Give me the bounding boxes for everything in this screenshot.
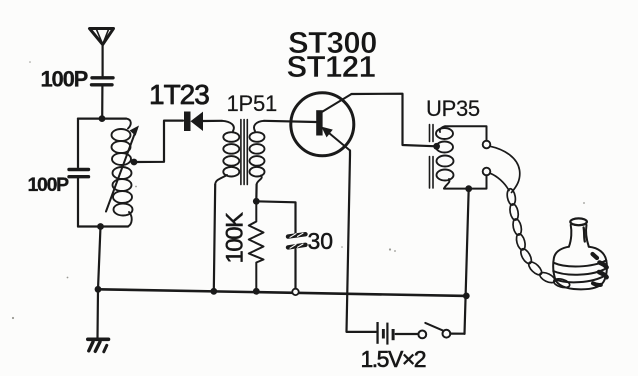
wire: emitter down to battery (347, 151, 377, 332)
capacitor C1 100P (92, 78, 114, 118)
svg-text:100P: 100P (28, 174, 70, 196)
wire: collector to T2 (352, 94, 437, 147)
switch S1 (418, 323, 464, 338)
wire: junction to C3 (256, 201, 295, 233)
node: collector tap on T2 (433, 143, 440, 150)
node: tank bottom junction (97, 223, 104, 230)
wire: T2 frame to terminals (445, 126, 487, 140)
svg-text:UP35: UP35 (426, 96, 480, 121)
wire: tap to diode (134, 121, 183, 162)
node: bus right end (463, 293, 470, 300)
wire: tank top (78, 117, 126, 119)
capacitor C3 30 (288, 233, 306, 288)
earphone (553, 218, 607, 289)
svg-text:100P: 100P (41, 67, 88, 92)
transformer T1 core (241, 120, 247, 185)
variable inductor L1 (tank coil) (112, 119, 133, 227)
transistor Q1 (291, 93, 354, 156)
earphone terminal A (483, 141, 491, 149)
battery BT1 (376, 322, 418, 345)
node: R1 bottom (253, 288, 260, 295)
svg-text:1.5V×2: 1.5V×2 (361, 346, 426, 372)
transformer T1 1P51 : primary (215, 121, 239, 185)
wire: to ground (96, 289, 99, 338)
wire: secondary bottom (255, 185, 258, 202)
wire: ground bus (98, 289, 466, 296)
earphone terminal B (483, 168, 491, 176)
antenna (90, 29, 114, 77)
svg-text:1T23: 1T23 (149, 79, 209, 110)
node: C3 bottom (open) (292, 289, 298, 295)
transformer T2 UP35 core (430, 125, 434, 189)
node: R1/C3 top junction (253, 198, 260, 205)
node: T2 bottom junction (465, 185, 472, 192)
svg-text:1P51: 1P51 (227, 91, 278, 116)
transformer T1 secondary (250, 121, 265, 185)
arrow (variable) (106, 126, 139, 212)
svg-text:30: 30 (308, 228, 334, 254)
paper speckles (12, 61, 585, 319)
wire: base (264, 121, 316, 122)
transformer T2 UP35 winding (436, 126, 454, 188)
wire: down to bus (98, 227, 101, 290)
diode D1 1T23 (184, 112, 222, 132)
resistor R1 100K (249, 201, 264, 291)
wire: tank bottom (78, 225, 128, 227)
node: coil tap (131, 159, 138, 166)
wire: T2 bottom to switch (465, 189, 469, 334)
node: primary bottom at bus (210, 288, 217, 295)
svg-text:100K: 100K (222, 212, 249, 264)
capacitor C2 100P (tank, left leg) (69, 119, 89, 227)
ground (88, 339, 109, 352)
svg-text:ST121: ST121 (287, 49, 376, 84)
node: bus left end (95, 286, 102, 293)
earphone cord (490, 146, 570, 289)
wire: primary bottom to bus (214, 185, 215, 292)
node: antenna/tank junction (99, 115, 106, 122)
